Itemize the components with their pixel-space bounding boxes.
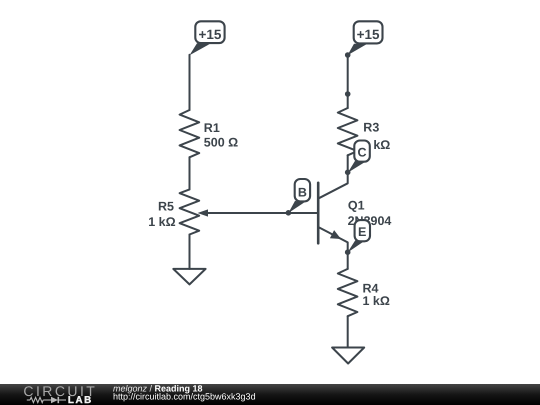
resistor R3 <box>338 108 358 155</box>
svg-text:C: C <box>358 145 367 159</box>
logo resistor zigzag <box>30 397 43 402</box>
wire R1 to R5 <box>189 157 191 189</box>
node dot junction <box>345 91 351 97</box>
node dot right +15 <box>345 52 351 58</box>
logo schematic squiggle: wire <box>27 399 30 401</box>
svg-text:R3: R3 <box>363 121 379 135</box>
svg-text:+15: +15 <box>357 27 380 42</box>
potentiometer R5 <box>180 189 200 234</box>
wire junction to R3 <box>347 93 349 108</box>
svg-text:http://circuitlab.com/ctg5bw6x: http://circuitlab.com/ctg5bw6xk3g3d <box>113 391 256 401</box>
node flag B <box>288 179 310 213</box>
wire emitter node to R4 <box>347 252 349 269</box>
transistor Q1 base bar <box>317 183 320 244</box>
R5 wiper arrowhead <box>198 209 209 216</box>
node B dot <box>286 210 292 216</box>
svg-text:E: E <box>358 225 366 239</box>
logo diode <box>51 397 58 403</box>
power flag +15 (left) <box>190 21 225 55</box>
Q1 emitter arrowhead <box>330 230 341 239</box>
resistor R4 <box>338 269 358 316</box>
power flag +15 (right) <box>348 21 383 55</box>
logo wire <box>43 399 51 401</box>
svg-text:B: B <box>298 185 307 199</box>
wire left +15 to R1 <box>189 55 191 110</box>
wire R4 to ground <box>347 316 349 347</box>
transistor Q1 collector lead <box>319 172 348 198</box>
node flag E <box>347 220 370 253</box>
wire R3 to collector node <box>347 155 349 172</box>
svg-text:500 Ω: 500 Ω <box>204 136 238 150</box>
svg-text:+15: +15 <box>198 27 221 42</box>
svg-text:R1: R1 <box>204 121 220 135</box>
transistor Q1 emitter lead <box>319 227 348 252</box>
ground (left) <box>173 269 205 285</box>
svg-text:LAB: LAB <box>68 395 93 405</box>
footer bar <box>0 383 540 405</box>
ground (right) <box>332 348 364 364</box>
svg-text:1 kΩ: 1 kΩ <box>148 215 175 229</box>
resistor R1 <box>180 110 200 157</box>
svg-text:Q1: Q1 <box>348 199 365 213</box>
wire R5 to ground <box>189 235 191 269</box>
node C dot <box>345 170 351 176</box>
node flag C <box>348 141 370 173</box>
svg-text:1 kΩ: 1 kΩ <box>363 294 390 308</box>
wire right +15 to junction <box>347 54 349 93</box>
svg-text:R5: R5 <box>158 200 174 214</box>
node E dot <box>345 249 351 255</box>
wire wiper to base <box>206 212 318 214</box>
